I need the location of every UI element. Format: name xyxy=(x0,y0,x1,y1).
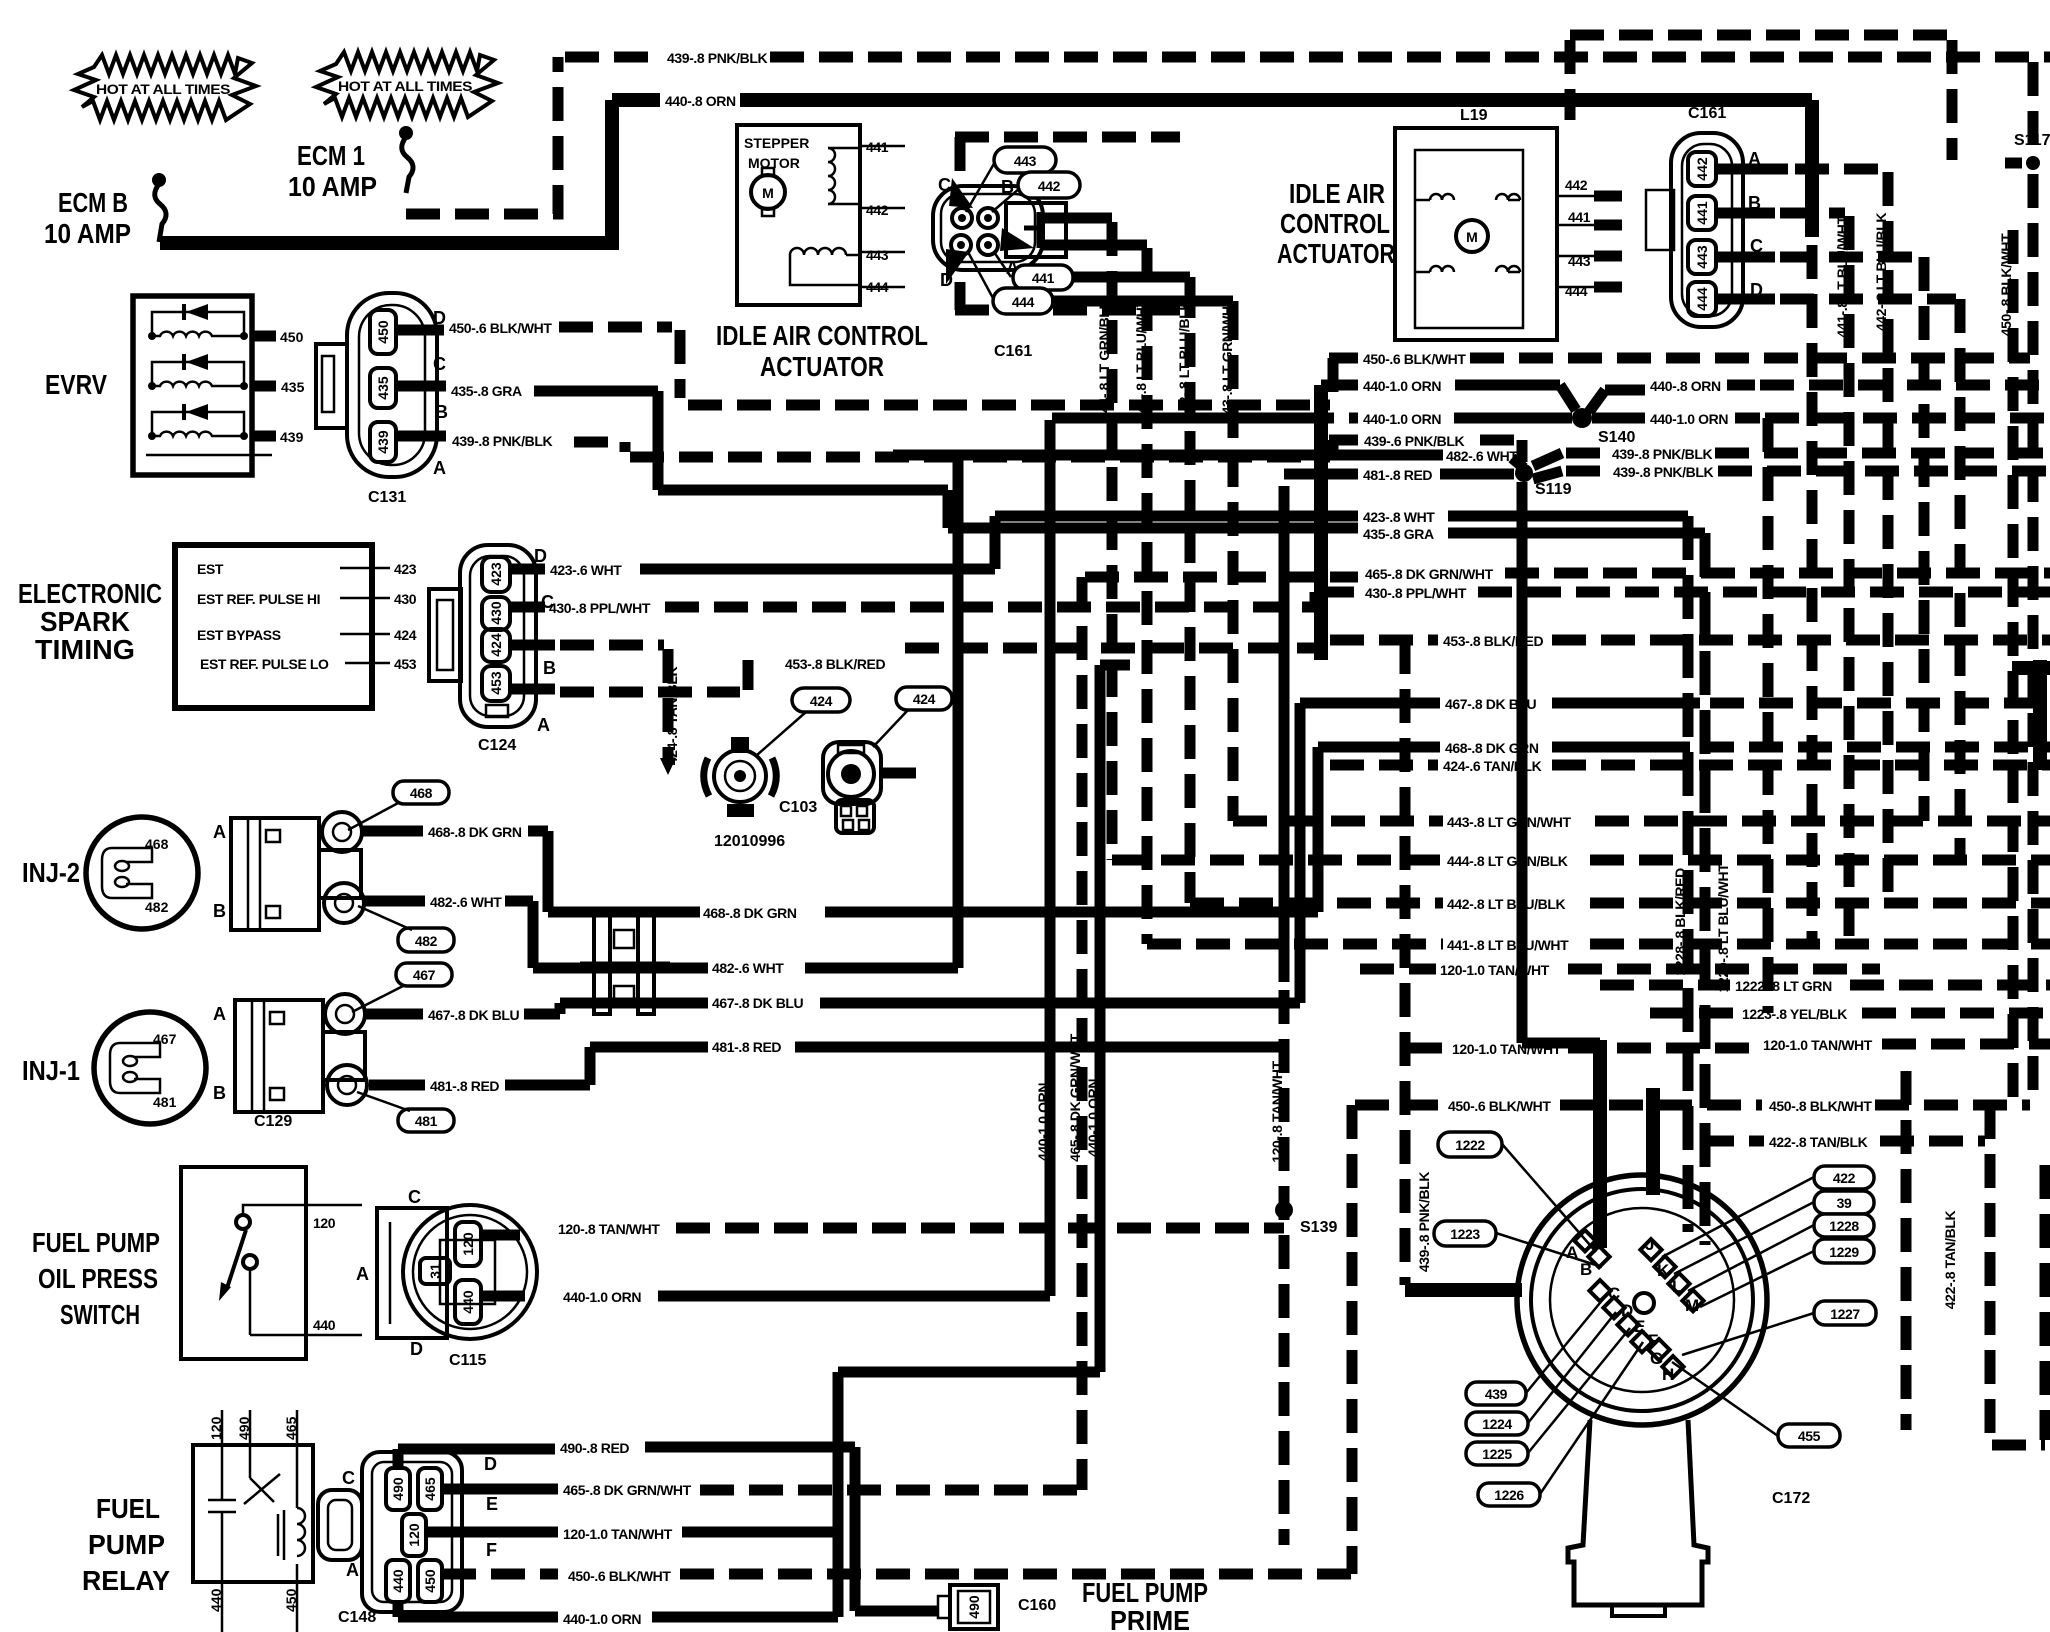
svg-text:1227: 1227 xyxy=(1830,1306,1860,1322)
svg-text:INJ-1: INJ-1 xyxy=(22,1055,80,1086)
svg-text:467: 467 xyxy=(153,1031,177,1047)
svg-text:ELECTRONIC: ELECTRONIC xyxy=(18,578,162,609)
svg-text:PRIME: PRIME xyxy=(1110,1605,1190,1632)
svg-text:422-.8 TAN/BLK: 422-.8 TAN/BLK xyxy=(1942,1211,1958,1310)
svg-text:442: 442 xyxy=(1038,178,1061,194)
svg-text:450: 450 xyxy=(422,1569,438,1593)
svg-text:430-.8 PPL/WHT: 430-.8 PPL/WHT xyxy=(1365,585,1467,601)
svg-text:450: 450 xyxy=(375,320,391,344)
svg-text:TIMING: TIMING xyxy=(35,634,135,665)
svg-text:HOT AT ALL TIMES: HOT AT ALL TIMES xyxy=(338,78,472,94)
svg-text:S119: S119 xyxy=(1535,481,1572,498)
svg-text:490: 490 xyxy=(236,1416,252,1440)
svg-text:C161: C161 xyxy=(994,343,1032,360)
svg-text:450-.6 BLK/WHT: 450-.6 BLK/WHT xyxy=(1363,351,1466,367)
svg-text:PUMP: PUMP xyxy=(88,1529,165,1560)
svg-text:C: C xyxy=(433,354,446,374)
svg-text:441: 441 xyxy=(1568,209,1591,225)
svg-text:482-.6 WHT: 482-.6 WHT xyxy=(1446,448,1518,464)
svg-text:B: B xyxy=(435,402,448,422)
svg-text:1229: 1229 xyxy=(1829,1244,1859,1260)
svg-text:465: 465 xyxy=(422,1477,438,1501)
svg-text:439-.8 PNK/BLK: 439-.8 PNK/BLK xyxy=(1613,464,1713,480)
svg-text:439: 439 xyxy=(1485,1386,1508,1402)
svg-text:C160: C160 xyxy=(1018,1597,1056,1614)
svg-text:444: 444 xyxy=(1694,287,1710,311)
svg-text:450-.8 BLK/WHT: 450-.8 BLK/WHT xyxy=(1769,1098,1872,1114)
svg-text:D: D xyxy=(484,1454,497,1474)
svg-text:424: 424 xyxy=(488,633,504,657)
svg-text:FUEL: FUEL xyxy=(96,1493,160,1524)
svg-text:481-.8 RED: 481-.8 RED xyxy=(712,1039,781,1055)
svg-text:120: 120 xyxy=(406,1523,422,1547)
svg-text:D: D xyxy=(940,270,953,290)
svg-text:31: 31 xyxy=(427,1263,443,1279)
svg-text:441-.8 LT BLU/WHT: 441-.8 LT BLU/WHT xyxy=(1834,216,1850,338)
svg-text:423: 423 xyxy=(488,562,504,586)
svg-text:C124: C124 xyxy=(478,737,516,754)
svg-text:J: J xyxy=(1645,1235,1654,1254)
svg-text:ACTUATOR: ACTUATOR xyxy=(760,351,884,382)
svg-text:C131: C131 xyxy=(368,489,406,506)
svg-text:10 AMP: 10 AMP xyxy=(288,171,377,202)
svg-text:435: 435 xyxy=(281,379,305,395)
svg-text:465-.8 DK GRN/WHT: 465-.8 DK GRN/WHT xyxy=(1067,1033,1083,1162)
svg-text:481: 481 xyxy=(153,1094,177,1110)
svg-text:A: A xyxy=(346,1560,359,1580)
svg-text:440-.8 ORN: 440-.8 ORN xyxy=(1650,378,1721,394)
svg-text:453-.8 BLK/RED: 453-.8 BLK/RED xyxy=(1443,633,1543,649)
svg-text:423: 423 xyxy=(394,561,417,577)
svg-text:439-.8 PNK/BLK: 439-.8 PNK/BLK xyxy=(1416,1172,1432,1272)
svg-text:468-.8 DK GRN: 468-.8 DK GRN xyxy=(428,824,522,840)
svg-text:439: 439 xyxy=(280,429,304,445)
svg-text:120-.8 TAN/WHT: 120-.8 TAN/WHT xyxy=(558,1221,660,1237)
svg-text:S139: S139 xyxy=(1300,1219,1337,1236)
svg-text:D: D xyxy=(1621,1301,1633,1320)
svg-text:450-.6 BLK/WHT: 450-.6 BLK/WHT xyxy=(449,320,552,336)
svg-text:439: 439 xyxy=(375,430,391,454)
svg-text:442: 442 xyxy=(866,202,889,218)
svg-text:D: D xyxy=(410,1339,423,1359)
svg-text:C: C xyxy=(342,1468,355,1488)
svg-text:C161: C161 xyxy=(1688,105,1726,122)
svg-text:453: 453 xyxy=(488,671,504,695)
svg-text:442-.8 LT BLU/BLK: 442-.8 LT BLU/BLK xyxy=(1176,301,1192,419)
svg-text:465-.8 DK GRN/WHT: 465-.8 DK GRN/WHT xyxy=(563,1482,692,1498)
svg-text:120: 120 xyxy=(313,1215,336,1231)
svg-text:442-.8 LT BLU/BLK: 442-.8 LT BLU/BLK xyxy=(1873,213,1889,331)
svg-text:481-.8 RED: 481-.8 RED xyxy=(1363,467,1432,483)
svg-text:442: 442 xyxy=(1694,157,1710,181)
svg-text:455: 455 xyxy=(1798,1428,1821,1444)
svg-text:C148: C148 xyxy=(338,1609,376,1626)
svg-text:L: L xyxy=(1672,1277,1682,1296)
svg-text:441: 441 xyxy=(1032,270,1055,286)
svg-text:F: F xyxy=(486,1540,497,1560)
svg-text:468-.8 DK GRN: 468-.8 DK GRN xyxy=(703,905,797,921)
svg-text:453-.8 BLK/RED: 453-.8 BLK/RED xyxy=(785,656,885,672)
svg-text:1223-.8 YEL/BLK: 1223-.8 YEL/BLK xyxy=(1742,1006,1847,1022)
svg-text:490: 490 xyxy=(390,1477,406,1501)
svg-text:424-.8 TAN/BLK: 424-.8 TAN/BLK xyxy=(664,667,680,766)
svg-text:M: M xyxy=(1685,1296,1699,1315)
svg-text:1229-.8 LT BLU/WHT: 1229-.8 LT BLU/WHT xyxy=(1715,863,1731,993)
svg-text:1228: 1228 xyxy=(1829,1218,1859,1234)
svg-text:120-.8 TAN/WHT: 120-.8 TAN/WHT xyxy=(1269,1060,1285,1162)
svg-text:C103: C103 xyxy=(779,799,817,816)
svg-text:B: B xyxy=(543,658,556,678)
svg-text:EST BYPASS: EST BYPASS xyxy=(197,627,281,643)
svg-text:439-.6 PNK/BLK: 439-.6 PNK/BLK xyxy=(1364,433,1464,449)
svg-text:443-.8 LT GRN/WHT: 443-.8 LT GRN/WHT xyxy=(1219,297,1235,421)
svg-text:STEPPER: STEPPER xyxy=(744,135,809,151)
svg-text:C: C xyxy=(408,1187,421,1207)
svg-text:443: 443 xyxy=(1014,153,1037,169)
svg-text:482-.6 WHT: 482-.6 WHT xyxy=(430,894,502,910)
svg-text:490-.8 RED: 490-.8 RED xyxy=(560,1440,629,1456)
svg-text:441-.8 LT BLU/WHT: 441-.8 LT BLU/WHT xyxy=(1133,299,1149,421)
svg-text:120-1.0 TAN/WHT: 120-1.0 TAN/WHT xyxy=(1440,962,1550,978)
svg-text:120-1.0 TAN/WHT: 120-1.0 TAN/WHT xyxy=(1763,1037,1873,1053)
svg-text:1224: 1224 xyxy=(1482,1416,1512,1432)
svg-text:444: 444 xyxy=(1565,283,1588,299)
svg-text:D: D xyxy=(534,546,547,566)
svg-text:HOT AT ALL TIMES: HOT AT ALL TIMES xyxy=(96,81,230,97)
svg-text:441-.8 LT BLU/WHT: 441-.8 LT BLU/WHT xyxy=(1447,937,1569,953)
svg-text:IDLE AIR: IDLE AIR xyxy=(1289,178,1385,209)
svg-text:ECM B: ECM B xyxy=(58,187,128,218)
svg-text:424: 424 xyxy=(394,627,417,643)
svg-text:C: C xyxy=(1608,1284,1620,1303)
svg-text:1225: 1225 xyxy=(1482,1446,1512,1462)
svg-text:F: F xyxy=(1648,1331,1658,1350)
svg-text:A: A xyxy=(356,1264,369,1284)
svg-text:468: 468 xyxy=(145,836,169,852)
svg-text:INJ-2: INJ-2 xyxy=(22,857,80,888)
svg-text:440-.8 ORN: 440-.8 ORN xyxy=(665,93,736,109)
svg-text:424: 424 xyxy=(913,691,936,707)
svg-text:440-1.0 ORN: 440-1.0 ORN xyxy=(563,1289,641,1305)
svg-text:E: E xyxy=(1634,1317,1645,1336)
svg-text:430: 430 xyxy=(394,591,417,607)
svg-text:FUEL PUMP: FUEL PUMP xyxy=(1082,1577,1208,1608)
svg-text:430-.8 PPL/WHT: 430-.8 PPL/WHT xyxy=(549,600,651,616)
svg-text:A: A xyxy=(537,715,550,735)
svg-text:OIL PRESS: OIL PRESS xyxy=(38,1263,158,1294)
svg-text:440-1.0 ORN: 440-1.0 ORN xyxy=(1363,378,1441,394)
svg-text:467: 467 xyxy=(413,967,436,983)
svg-text:453: 453 xyxy=(394,656,417,672)
svg-text:ACTUATOR: ACTUATOR xyxy=(1277,238,1395,269)
svg-text:1223: 1223 xyxy=(1450,1226,1480,1242)
svg-text:468: 468 xyxy=(410,785,433,801)
svg-text:A: A xyxy=(213,1004,226,1024)
svg-text:443-.8 LT GRN/WHT: 443-.8 LT GRN/WHT xyxy=(1447,814,1571,830)
svg-text:EST REF. PULSE HI: EST REF. PULSE HI xyxy=(197,591,320,607)
svg-text:10 AMP: 10 AMP xyxy=(44,218,131,249)
svg-text:EVRV: EVRV xyxy=(45,369,107,400)
svg-text:424: 424 xyxy=(810,693,833,709)
svg-text:SPARK: SPARK xyxy=(40,606,130,637)
svg-text:120-1.0 TAN/WHT: 120-1.0 TAN/WHT xyxy=(563,1526,673,1542)
svg-text:444-.8 LT GRN/BLK: 444-.8 LT GRN/BLK xyxy=(1447,853,1568,869)
svg-text:439-.8 PNK/BLK: 439-.8 PNK/BLK xyxy=(667,50,767,66)
svg-text:435-.8 GRA: 435-.8 GRA xyxy=(451,383,522,399)
svg-text:439-.8 PNK/BLK: 439-.8 PNK/BLK xyxy=(452,433,552,449)
svg-text:440-1.0 ORN: 440-1.0 ORN xyxy=(1363,411,1441,427)
svg-text:482: 482 xyxy=(145,899,169,915)
svg-text:450: 450 xyxy=(280,329,304,345)
svg-text:K: K xyxy=(1657,1261,1670,1280)
svg-text:440: 440 xyxy=(390,1569,406,1593)
svg-text:443: 443 xyxy=(866,247,889,263)
svg-text:481: 481 xyxy=(415,1113,438,1129)
svg-text:430: 430 xyxy=(488,601,504,625)
svg-text:L19: L19 xyxy=(1460,107,1488,124)
svg-text:439-.8 PNK/BLK: 439-.8 PNK/BLK xyxy=(1612,446,1712,462)
svg-text:442: 442 xyxy=(1565,177,1588,193)
svg-text:EST: EST xyxy=(197,561,224,577)
svg-text:440-1.0 ORN: 440-1.0 ORN xyxy=(563,1611,641,1627)
svg-text:A: A xyxy=(213,822,226,842)
svg-text:SWITCH: SWITCH xyxy=(60,1299,140,1330)
svg-text:422: 422 xyxy=(1833,1170,1856,1186)
svg-text:450-.8 BLK/WHT: 450-.8 BLK/WHT xyxy=(1998,233,2014,336)
svg-text:440: 440 xyxy=(460,1290,476,1314)
svg-text:450-.6 BLK/WHT: 450-.6 BLK/WHT xyxy=(1448,1098,1551,1114)
svg-text:H: H xyxy=(1662,1365,1674,1384)
svg-text:1228-.8 BLK/RED: 1228-.8 BLK/RED xyxy=(1672,868,1688,976)
svg-text:M: M xyxy=(1466,229,1478,245)
svg-text:481-.8 RED: 481-.8 RED xyxy=(430,1078,499,1094)
svg-text:C172: C172 xyxy=(1772,1490,1810,1507)
svg-text:C: C xyxy=(938,175,951,195)
svg-text:465-.8 DK GRN/WHT: 465-.8 DK GRN/WHT xyxy=(1365,566,1494,582)
svg-text:CONTROL: CONTROL xyxy=(1280,208,1390,239)
svg-text:440-1.0 ORN: 440-1.0 ORN xyxy=(1650,411,1728,427)
svg-text:435: 435 xyxy=(375,376,391,400)
svg-text:12010996: 12010996 xyxy=(714,833,785,850)
svg-text:444-.8 LT GRN/BLK: 444-.8 LT GRN/BLK xyxy=(1096,299,1112,420)
svg-text:120: 120 xyxy=(208,1416,224,1440)
svg-text:FUEL PUMP: FUEL PUMP xyxy=(32,1227,160,1258)
svg-text:450: 450 xyxy=(283,1588,299,1612)
svg-text:435-.8 GRA: 435-.8 GRA xyxy=(1363,526,1434,542)
svg-text:467-.8 DK BLU: 467-.8 DK BLU xyxy=(428,1007,520,1023)
svg-text:1222: 1222 xyxy=(1455,1137,1485,1153)
svg-text:B: B xyxy=(213,1083,226,1103)
svg-text:422-.8 TAN/BLK: 422-.8 TAN/BLK xyxy=(1769,1134,1868,1150)
svg-text:A: A xyxy=(433,458,446,478)
svg-text:423-.6 WHT: 423-.6 WHT xyxy=(550,562,622,578)
svg-text:440-1.0 ORN: 440-1.0 ORN xyxy=(1085,1079,1101,1157)
svg-text:39: 39 xyxy=(1837,1195,1852,1211)
svg-text:441: 441 xyxy=(1694,201,1710,225)
svg-text:C115: C115 xyxy=(449,1352,486,1369)
svg-text:RELAY: RELAY xyxy=(82,1565,170,1596)
svg-text:482-.6 WHT: 482-.6 WHT xyxy=(712,960,784,976)
svg-text:440: 440 xyxy=(313,1317,336,1333)
svg-text:M: M xyxy=(762,185,774,201)
svg-text:444: 444 xyxy=(1012,294,1035,310)
svg-text:440-1.0 ORN: 440-1.0 ORN xyxy=(1035,1083,1051,1161)
svg-text:1222-.8 LT GRN: 1222-.8 LT GRN xyxy=(1735,978,1832,994)
svg-text:B: B xyxy=(213,901,226,921)
svg-text:440: 440 xyxy=(208,1588,224,1612)
svg-text:ECM 1: ECM 1 xyxy=(297,140,365,171)
svg-text:S140: S140 xyxy=(1598,429,1635,446)
svg-text:490: 490 xyxy=(966,1595,982,1619)
svg-text:465: 465 xyxy=(283,1416,299,1440)
svg-text:443: 443 xyxy=(1694,245,1710,269)
svg-text:IDLE AIR CONTROL: IDLE AIR CONTROL xyxy=(716,320,928,351)
svg-text:450-.6 BLK/WHT: 450-.6 BLK/WHT xyxy=(568,1568,671,1584)
svg-text:442-.8 LT BLU/BLK: 442-.8 LT BLU/BLK xyxy=(1447,896,1565,912)
svg-text:423-.8 WHT: 423-.8 WHT xyxy=(1363,509,1435,525)
svg-text:C129: C129 xyxy=(254,1113,292,1130)
svg-text:482: 482 xyxy=(415,933,438,949)
svg-text:EST REF. PULSE LO: EST REF. PULSE LO xyxy=(200,656,329,672)
svg-text:467-.8 DK BLU: 467-.8 DK BLU xyxy=(712,995,804,1011)
svg-text:1226: 1226 xyxy=(1494,1487,1524,1503)
svg-text:120: 120 xyxy=(460,1232,476,1256)
svg-text:E: E xyxy=(486,1494,498,1514)
